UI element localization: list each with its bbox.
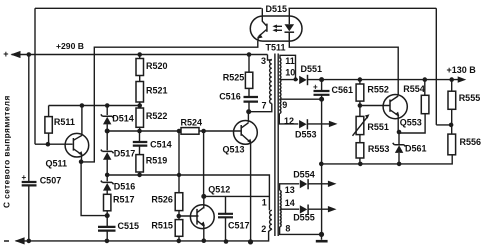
svg-text:D551: D551 [301, 64, 323, 74]
svg-text:R556: R556 [460, 137, 482, 147]
svg-text:R554: R554 [403, 84, 425, 94]
svg-text:R515: R515 [151, 221, 173, 231]
svg-text:13: 13 [285, 185, 295, 195]
svg-text:D554: D554 [293, 170, 315, 180]
svg-text:C516: C516 [219, 92, 241, 102]
svg-text:D553: D553 [295, 130, 317, 140]
svg-text:R521: R521 [146, 86, 168, 96]
svg-text:9: 9 [282, 100, 287, 110]
svg-text:+: + [22, 173, 27, 182]
svg-text:3: 3 [261, 56, 266, 66]
svg-text:T511: T511 [266, 43, 286, 53]
svg-text:10: 10 [285, 68, 295, 78]
svg-text:+130 В: +130 В [447, 65, 477, 75]
svg-text:12: 12 [284, 116, 294, 126]
svg-text:С сетевого выпрямителя: С сетевого выпрямителя [2, 95, 12, 208]
svg-text:R511: R511 [54, 117, 75, 127]
svg-text:D517: D517 [114, 149, 136, 159]
svg-text:2: 2 [261, 224, 266, 234]
svg-text:Q511: Q511 [46, 159, 68, 169]
svg-text:R555: R555 [459, 93, 481, 103]
svg-text:D555: D555 [293, 213, 315, 223]
svg-text:R524: R524 [181, 118, 203, 128]
svg-text:+290 В: +290 В [56, 41, 84, 51]
svg-text:R526: R526 [151, 194, 173, 204]
svg-text:R551: R551 [367, 122, 389, 132]
svg-text:R552: R552 [367, 85, 389, 95]
svg-text:R520: R520 [146, 61, 168, 71]
svg-text:+: + [313, 83, 318, 92]
svg-text:Q512: Q512 [208, 185, 230, 195]
svg-text:D514: D514 [112, 114, 134, 124]
svg-text:R522: R522 [146, 111, 168, 121]
svg-text:C561: C561 [332, 85, 354, 95]
svg-text:8: 8 [285, 224, 290, 234]
svg-text:1: 1 [262, 198, 267, 208]
svg-text:7: 7 [262, 101, 267, 111]
svg-text:14: 14 [285, 198, 295, 208]
svg-text:R517: R517 [113, 195, 135, 205]
svg-text:C515: C515 [118, 221, 140, 231]
svg-text:Q553: Q553 [400, 118, 422, 128]
svg-text:C514: C514 [150, 140, 172, 150]
svg-text:11: 11 [285, 56, 295, 66]
svg-text:R525: R525 [223, 73, 245, 83]
svg-text:+: + [3, 49, 8, 59]
svg-text:R519: R519 [146, 156, 168, 166]
svg-text:C517: C517 [228, 221, 250, 231]
svg-text:C507: C507 [40, 176, 62, 186]
svg-text:D515: D515 [266, 4, 288, 14]
svg-text:Q513: Q513 [223, 145, 245, 155]
svg-text:D561: D561 [405, 144, 427, 154]
svg-text:R553: R553 [368, 144, 390, 154]
svg-text:D516: D516 [114, 181, 136, 191]
